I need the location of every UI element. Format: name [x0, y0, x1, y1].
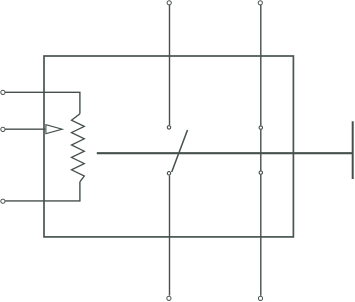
enclosure box	[44, 56, 293, 237]
switch S1 top contact	[167, 126, 170, 129]
wire from switch S2 bottom contact to pin P4	[260, 175, 262, 296]
wiper arrow of potentiometer R1	[46, 125, 62, 134]
switch S2 blade (closed)	[260, 130, 262, 171]
potentiometer R1 bottom lead wire to pin P7	[5, 182, 80, 201]
switch S2 top contact	[259, 126, 262, 129]
off-page connector bar (right edge)	[352, 121, 354, 179]
terminal pin P6 (left, wiper)	[1, 127, 5, 131]
switch S1 blade (open)	[172, 130, 188, 172]
wire from P1 to switch S1 top contact	[169, 5, 171, 125]
terminal pin P7 (left, potentiometer bottom end)	[1, 199, 5, 203]
wire from P5 to potentiometer top lead	[5, 92, 80, 114]
terminal pin P2 (top right)	[258, 1, 262, 5]
potentiometer R1 resistive element (zigzag)	[72, 114, 85, 182]
terminal pin P4 (bottom right)	[258, 296, 262, 300]
wire from P6 to wiper arrow	[5, 128, 45, 130]
wire from switch S1 bottom contact to pin P3	[169, 176, 171, 296]
switch S1 bottom contact	[167, 172, 170, 175]
output wire (wiper net) to off-page connector	[97, 152, 352, 154]
switch S2 bottom contact	[259, 171, 262, 174]
wire from P2 to switch S2 top contact	[260, 5, 262, 125]
terminal pin P5 (left, potentiometer top end)	[1, 90, 5, 94]
terminal pin P1 (top left)	[167, 1, 171, 5]
terminal pin P3 (bottom left)	[167, 296, 171, 300]
